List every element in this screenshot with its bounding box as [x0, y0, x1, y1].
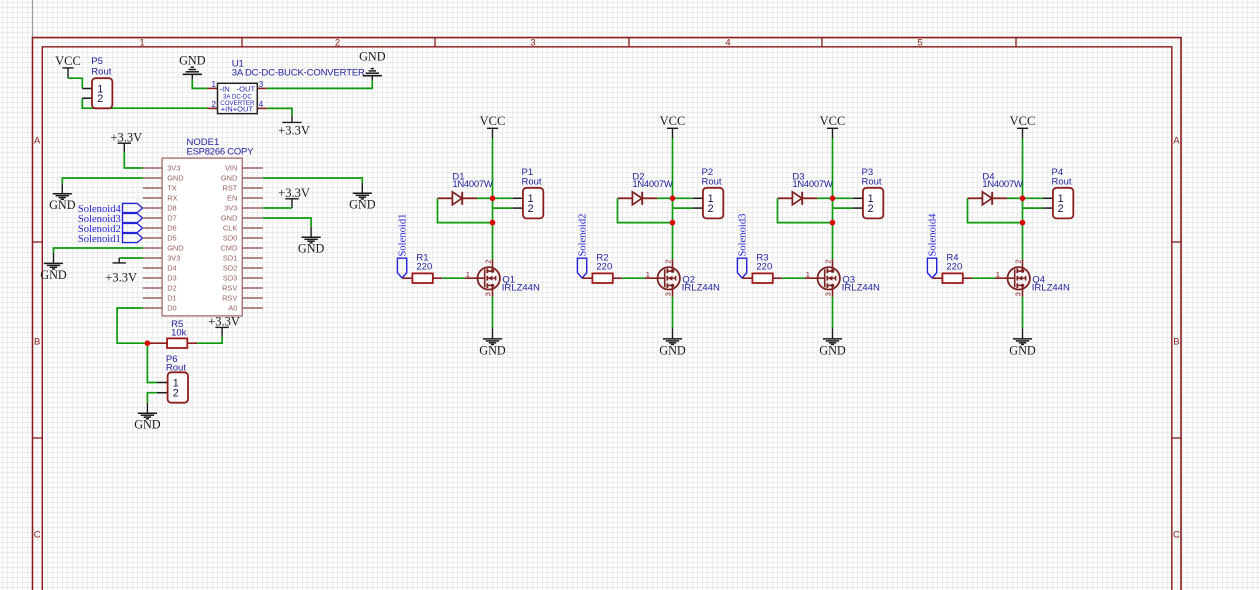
- svg-text:2: 2: [335, 37, 340, 48]
- svg-text:C: C: [1173, 530, 1180, 541]
- resistor R4 left lead: [932, 277, 942, 279]
- junction driver 3 drain node: [830, 220, 836, 226]
- svg-text:CMD: CMD: [220, 244, 237, 253]
- wire R2 to Q2 gate: [622, 277, 645, 279]
- diode D4 cathode lead: [992, 197, 1007, 199]
- transistor Q2 (IRLZ44N): [658, 259, 680, 297]
- ground GND at P6: [134, 403, 161, 432]
- svg-text:Rout: Rout: [1052, 176, 1072, 187]
- svg-text:GND: GND: [298, 242, 325, 256]
- svg-text:3: 3: [824, 292, 833, 296]
- svg-text:Solenoid2: Solenoid2: [577, 214, 588, 257]
- diode D2 cathode lead: [642, 197, 657, 199]
- U1 pin 3 stub: [257, 87, 267, 89]
- resistor R1 right lead: [433, 277, 442, 279]
- svg-text:EN: EN: [227, 194, 237, 203]
- module NODE1 (ESP8266 COPY) body: [162, 158, 242, 316]
- wire D2 anode loop to drain node: [618, 198, 673, 222]
- power flag +3.3V (U1 +OUT rail): [278, 116, 310, 138]
- svg-text:GND: GND: [819, 343, 846, 357]
- connector P1 (Rout): [523, 188, 543, 219]
- ground GND at U1 -OUT: [359, 49, 386, 80]
- wire node to P2 pin 1: [673, 197, 693, 199]
- connector P6 pin 1 stub: [157, 382, 168, 384]
- svg-text:RSV: RSV: [222, 294, 237, 303]
- svg-text:Rout: Rout: [91, 66, 111, 77]
- connector P4 (Rout): [1053, 188, 1073, 219]
- svg-text:4: 4: [259, 100, 264, 109]
- power flag VCC (input supply): [55, 54, 81, 78]
- svg-text:2: 2: [824, 259, 833, 263]
- svg-text:D8: D8: [167, 204, 176, 213]
- svg-text:10k: 10k: [171, 328, 187, 339]
- svg-text:Solenoid1: Solenoid1: [78, 234, 121, 245]
- svg-text:IRLZ44N: IRLZ44N: [1032, 282, 1070, 293]
- svg-text:-IN: -IN: [220, 84, 230, 93]
- resistor R2 right lead: [613, 277, 622, 279]
- wire VCC rail of driver 2: [672, 138, 674, 259]
- power flag +3.3V (R5 pull-up): [208, 315, 240, 337]
- wire D4 cathode to node: [1007, 197, 1023, 199]
- svg-text:GND: GND: [479, 343, 506, 357]
- wire R1 to Q1 gate: [442, 277, 465, 279]
- diode D2 (1N4007W): [632, 192, 642, 205]
- svg-text:5: 5: [917, 37, 922, 48]
- wire P5 pin 2 to U1 +IN: [82, 98, 207, 108]
- svg-text:Rout: Rout: [862, 176, 882, 187]
- svg-text:2: 2: [484, 259, 493, 263]
- wire P6 pin 2 to GND: [147, 393, 157, 403]
- wire Q2 source to GND: [672, 297, 674, 329]
- resistor R3 left lead: [742, 277, 752, 279]
- connector P3 pin 1 stub: [853, 197, 863, 199]
- diode D1 (1N4007W): [452, 192, 462, 205]
- svg-text:Rout: Rout: [522, 176, 542, 187]
- svg-text:VIN: VIN: [225, 164, 237, 173]
- svg-text:1: 1: [646, 270, 650, 279]
- wire node to P1 pin 1: [493, 197, 513, 199]
- power flag +3.3V (ESP 3V3 right): [278, 186, 310, 208]
- transistor Q1 gate lead: [465, 277, 485, 279]
- transistor Q1 (IRLZ44N): [478, 259, 500, 297]
- wire NODE1 D0 to R5 node: [117, 308, 145, 343]
- wire Q3 source to GND: [832, 297, 834, 329]
- connector P4 pin 1 stub: [1043, 197, 1053, 199]
- wire node to P6 pin 1: [147, 343, 157, 382]
- svg-text:SD2: SD2: [223, 264, 237, 273]
- svg-text:A0: A0: [228, 304, 237, 313]
- svg-text:2: 2: [212, 100, 217, 109]
- resistor R4 right lead: [963, 277, 972, 279]
- resistor R1 (220): [412, 273, 432, 283]
- svg-text:D4: D4: [167, 264, 176, 273]
- wire D2 cathode to node: [657, 197, 673, 199]
- connector P6 pin 2 stub: [157, 392, 168, 394]
- wire node to P3 pin 1: [833, 197, 853, 199]
- ground GND at NODE1 right lower: [298, 227, 325, 256]
- svg-text:SD3: SD3: [223, 274, 237, 283]
- connector P5 pin 2 stub: [82, 97, 92, 99]
- ground GND at NODE1 right: [349, 183, 376, 212]
- svg-text:4: 4: [725, 37, 730, 48]
- svg-text:2: 2: [1014, 259, 1023, 263]
- junction at R5 / P6 node: [145, 340, 151, 346]
- svg-text:GND: GND: [49, 198, 76, 212]
- svg-text:GND: GND: [221, 214, 237, 223]
- svg-text:TX: TX: [167, 184, 177, 193]
- svg-text:220: 220: [946, 261, 962, 272]
- connector P5 pin 1 stub: [82, 88, 92, 90]
- svg-text:D3: D3: [167, 274, 176, 283]
- svg-text:2: 2: [97, 93, 103, 105]
- wire NODE1 GND right lower: [263, 218, 311, 227]
- junction driver 2 drain node: [670, 220, 676, 226]
- svg-text:GND: GND: [179, 53, 206, 67]
- svg-text:GND: GND: [221, 174, 237, 183]
- svg-text:B: B: [1173, 337, 1179, 348]
- wire rail to P3 pin 2: [833, 207, 853, 209]
- NODE1 right pin stubs: [242, 168, 263, 308]
- wire +3.3V to NODE1 3V3: [124, 152, 143, 168]
- wire NODE1 GND right: [263, 178, 362, 183]
- svg-text:IRLZ44N: IRLZ44N: [682, 282, 720, 293]
- svg-text:2: 2: [1058, 203, 1064, 215]
- diode D3 anode lead: [778, 197, 793, 199]
- svg-text:Rout: Rout: [702, 176, 722, 187]
- net label Solenoid4 at NODE1: [78, 203, 143, 215]
- svg-text:+3.3V: +3.3V: [110, 130, 142, 144]
- diode D4 anode lead: [968, 197, 983, 199]
- connector P3 pin 2 stub: [853, 207, 863, 209]
- svg-text:RST: RST: [223, 184, 238, 193]
- junction driver 3 upper node: [830, 196, 836, 202]
- power flag VCC (driver 2 supply): [660, 114, 686, 138]
- svg-text:220: 220: [596, 261, 612, 272]
- net label Solenoid1 at driver: [397, 214, 408, 278]
- wire D1 anode loop to drain node: [438, 198, 493, 222]
- diode D2 anode lead: [618, 197, 633, 199]
- wire rail to P4 pin 2: [1023, 207, 1043, 209]
- svg-text:GND: GND: [659, 343, 686, 357]
- svg-text:2: 2: [528, 203, 534, 215]
- ground GND at NODE1 lower-left: [40, 253, 67, 282]
- frame row ticks: [33, 242, 1182, 438]
- wire R5 to +3.3V: [197, 337, 222, 344]
- wire D1 cathode to node: [477, 197, 493, 199]
- diode D1 cathode lead: [462, 197, 477, 199]
- connector P6 (Rout): [168, 372, 188, 402]
- svg-text:3: 3: [664, 292, 673, 296]
- svg-text:1: 1: [139, 37, 144, 48]
- net label Solenoid4 at driver: [927, 213, 938, 278]
- svg-text:+3.3V: +3.3V: [105, 270, 137, 284]
- svg-text:2: 2: [708, 203, 714, 215]
- svg-text:3V3: 3V3: [167, 254, 180, 263]
- svg-text:D5: D5: [167, 234, 176, 243]
- net label Solenoid1 at NODE1: [78, 233, 143, 245]
- power flag VCC (driver 3 supply): [820, 114, 846, 138]
- ground GND of driver 1: [479, 329, 506, 358]
- svg-text:1N4007W: 1N4007W: [632, 179, 672, 190]
- svg-text:CLK: CLK: [223, 224, 237, 233]
- svg-text:GND: GND: [167, 244, 183, 253]
- wire GND to U1 -IN: [192, 79, 207, 88]
- ground GND of driver 4: [1009, 329, 1036, 358]
- transistor Q3 gate lead: [805, 277, 825, 279]
- connector P1 pin 2 stub: [513, 207, 523, 209]
- wire U1 +OUT to +3.3V: [267, 108, 292, 115]
- net label Solenoid3 at driver: [737, 214, 748, 278]
- ground GND of driver 3: [819, 329, 846, 358]
- wire R4 to Q4 gate: [972, 277, 995, 279]
- svg-text:Solenoid3: Solenoid3: [737, 214, 748, 257]
- svg-text:3: 3: [259, 80, 264, 89]
- junction driver 2 upper node: [670, 196, 676, 202]
- wire D3 anode loop to drain node: [778, 198, 833, 222]
- svg-text:VCC: VCC: [55, 54, 81, 68]
- svg-text:3V3: 3V3: [224, 204, 237, 213]
- svg-text:A: A: [34, 136, 41, 147]
- svg-text:RX: RX: [167, 194, 177, 203]
- connector P1 pin 1 stub: [513, 197, 523, 199]
- svg-text:D2: D2: [167, 284, 176, 293]
- junction driver 4 drain node: [1020, 220, 1026, 226]
- svg-text:3: 3: [530, 37, 535, 48]
- power flag +3.3V (ESP 3V3 top): [110, 130, 142, 152]
- svg-text:RSV: RSV: [222, 284, 237, 293]
- diode D3 (1N4007W): [792, 192, 802, 205]
- resistor R5 left lead: [147, 342, 167, 344]
- svg-text:3V3: 3V3: [167, 164, 180, 173]
- svg-text:C: C: [34, 530, 41, 541]
- svg-text:2: 2: [173, 388, 179, 400]
- svg-text:D7: D7: [167, 214, 176, 223]
- diode D4 (1N4007W): [982, 192, 992, 205]
- wire rail to P2 pin 2: [673, 207, 693, 209]
- svg-text:GND: GND: [167, 174, 183, 183]
- svg-text:+3.3V: +3.3V: [208, 315, 240, 329]
- connector P2 pin 2 stub: [693, 207, 703, 209]
- connector P2 pin 1 stub: [693, 197, 703, 199]
- connector P3 (Rout): [863, 188, 883, 219]
- svg-text:220: 220: [756, 261, 772, 272]
- svg-text:D6: D6: [167, 224, 176, 233]
- resistor R5 right lead: [187, 342, 197, 344]
- connector P5 (Rout): [92, 78, 112, 108]
- svg-text:1N4007W: 1N4007W: [792, 179, 832, 190]
- wire VCC to P5 pin 1: [68, 78, 82, 88]
- svg-text:D1: D1: [167, 294, 176, 303]
- svg-text:+IN+OUT: +IN+OUT: [221, 105, 254, 114]
- svg-text:Solenoid1: Solenoid1: [397, 214, 408, 257]
- svg-text:3: 3: [1014, 292, 1023, 296]
- net label Solenoid2 at NODE1: [78, 223, 143, 235]
- resistor R3 (220): [752, 273, 772, 283]
- svg-text:+3.3V: +3.3V: [278, 186, 310, 200]
- wire VCC rail of driver 4: [1022, 138, 1024, 259]
- transistor Q3 (IRLZ44N): [818, 259, 840, 297]
- svg-text:1: 1: [806, 270, 810, 279]
- wire NODE1 3V3 lower: [119, 257, 143, 259]
- svg-text:GND: GND: [40, 268, 67, 282]
- svg-text:VCC: VCC: [660, 114, 686, 128]
- diode D1 anode lead: [438, 197, 453, 199]
- resistor R2 left lead: [582, 277, 592, 279]
- svg-text:ESP8266 COPY: ESP8266 COPY: [187, 147, 255, 158]
- buck converter U1: [218, 83, 258, 113]
- wire node to P4 pin 1: [1023, 197, 1043, 199]
- svg-text:220: 220: [416, 261, 432, 272]
- svg-text:VCC: VCC: [480, 114, 506, 128]
- svg-text:Rout: Rout: [166, 363, 186, 374]
- connector P4 pin 2 stub: [1043, 207, 1053, 209]
- svg-text:GND: GND: [349, 198, 376, 212]
- svg-text:VCC: VCC: [1010, 114, 1036, 128]
- resistor R3 right lead: [773, 277, 782, 279]
- svg-text:1N4007W: 1N4007W: [452, 179, 492, 190]
- resistor R1 left lead: [402, 277, 412, 279]
- ground GND at NODE1 left: [49, 183, 76, 212]
- power flag VCC (driver 4 supply): [1010, 114, 1036, 138]
- svg-text:IRLZ44N: IRLZ44N: [842, 282, 880, 293]
- wire U1 -OUT to GND: [267, 80, 372, 88]
- diode D3 cathode lead: [802, 197, 817, 199]
- frame column ticks: [242, 38, 1016, 47]
- svg-text:VCC: VCC: [820, 114, 846, 128]
- svg-text:2: 2: [868, 203, 874, 215]
- resistor R5 (10k): [167, 338, 187, 348]
- junction driver 4 upper node: [1020, 196, 1026, 202]
- resistor R4 (220): [942, 273, 962, 283]
- net label Solenoid3 at NODE1: [78, 213, 143, 225]
- svg-text:GND: GND: [359, 49, 386, 63]
- ground GND of driver 2: [659, 329, 686, 358]
- U1 pin 4 stub: [257, 107, 267, 109]
- net label Solenoid2 at driver: [577, 214, 588, 278]
- junction driver 1 upper node: [490, 196, 496, 202]
- wire NODE1 GND lower-left: [54, 248, 143, 253]
- ground GND at U1 -IN: [179, 53, 206, 79]
- wire rail to P1 pin 2: [493, 207, 513, 209]
- transistor Q2 gate lead: [645, 277, 665, 279]
- power flag +3.3V (ESP 3V3 lower): [105, 258, 137, 284]
- svg-text:2: 2: [664, 259, 673, 263]
- connector P2 (Rout): [703, 188, 723, 219]
- svg-text:IRLZ44N: IRLZ44N: [502, 282, 540, 293]
- svg-text:SD1: SD1: [223, 254, 237, 263]
- svg-text:1: 1: [212, 80, 217, 89]
- svg-text:D0: D0: [167, 304, 176, 313]
- wire NODE1 3V3 right: [263, 207, 292, 209]
- svg-text:+3.3V: +3.3V: [278, 124, 310, 138]
- svg-text:SD0: SD0: [223, 234, 237, 243]
- svg-text:3A DC-DC-BUCK-CONVERTER: 3A DC-DC-BUCK-CONVERTER: [232, 68, 365, 79]
- svg-text:3: 3: [484, 292, 493, 296]
- svg-text:1N4007W: 1N4007W: [982, 179, 1022, 190]
- wire R3 to Q3 gate: [782, 277, 805, 279]
- transistor Q4 (IRLZ44N): [1008, 259, 1030, 297]
- power flag VCC (driver 1 supply): [480, 114, 506, 138]
- resistor R2 (220): [592, 273, 612, 283]
- svg-text:-OUT: -OUT: [237, 84, 256, 93]
- svg-text:GND: GND: [1009, 343, 1036, 357]
- junction driver 1 drain node: [490, 220, 496, 226]
- U1 pin 2 stub: [207, 107, 217, 109]
- svg-text:1: 1: [996, 270, 1000, 279]
- wire D3 cathode to node: [817, 197, 833, 199]
- NODE1 left pin stubs: [143, 168, 162, 308]
- svg-text:Solenoid4: Solenoid4: [927, 213, 938, 257]
- wire Q4 source to GND: [1022, 297, 1024, 329]
- sheet edge line (above frame): [32, 0, 34, 38]
- wire VCC rail of driver 3: [832, 138, 834, 259]
- transistor Q4 gate lead: [995, 277, 1015, 279]
- svg-text:B: B: [34, 337, 40, 348]
- svg-text:A: A: [1173, 136, 1180, 147]
- svg-text:1: 1: [466, 270, 470, 279]
- wire D4 anode loop to drain node: [968, 198, 1023, 222]
- U1 pin 1 stub: [207, 87, 217, 89]
- wire VCC rail of driver 1: [492, 138, 494, 259]
- wire Q1 source to GND: [492, 297, 494, 329]
- wire NODE1 GND left: [62, 178, 143, 183]
- svg-text:GND: GND: [134, 418, 161, 432]
